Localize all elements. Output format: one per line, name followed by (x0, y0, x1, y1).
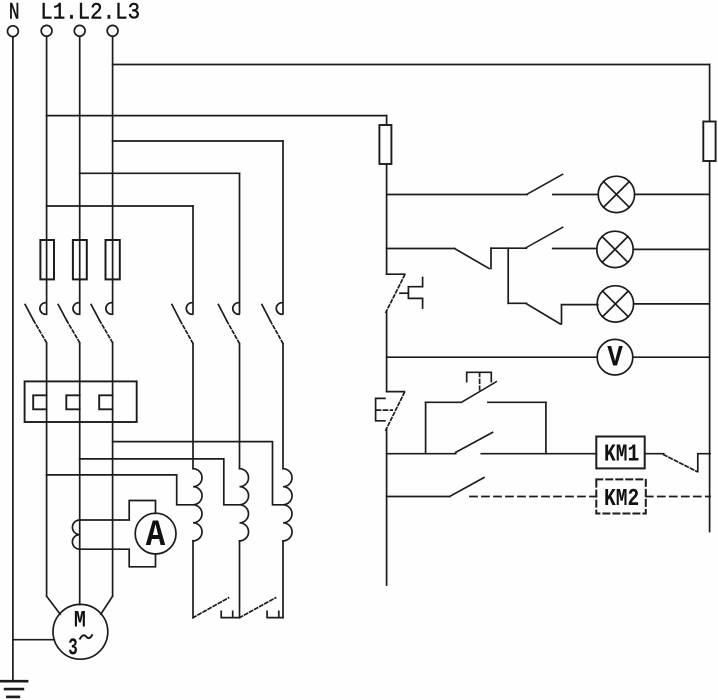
wire coil 3 bottom (282, 541, 284, 618)
contactor KM pole 2 (218, 303, 239, 344)
lamp HL2 (597, 231, 633, 267)
svg-text:3: 3 (68, 636, 78, 663)
wire selector vertical (507, 248, 509, 303)
lamp HL1 (598, 176, 634, 212)
lamp HL3 (597, 286, 633, 322)
autotransformer coil 1 (193, 469, 202, 541)
star contact blade 2 (240, 598, 276, 618)
motor tilde mark (80, 635, 92, 638)
wire L3 branch to x283 (113, 140, 283, 142)
lamp row 1 wire right (635, 193, 710, 195)
wire N vertical (12, 37, 14, 681)
wire tap L1 to coil 1 (47, 475, 193, 505)
stop button SB1 NC contact (386, 274, 423, 312)
current transformer on L2 (72, 520, 79, 549)
right rail segment 2 (709, 161, 711, 532)
wire motor lead 3 (101, 596, 113, 614)
wire ammeter top loop (80, 501, 156, 521)
lamp row 2 wire left (387, 248, 455, 250)
KM2 aux contact blade (450, 478, 484, 497)
wire branch vertical x239 upper (239, 173, 241, 313)
voltmeter row wire right (633, 356, 710, 358)
switch SA selector diagonal lower (526, 304, 560, 324)
wire L3 vertical upper (112, 36, 114, 314)
lamp row 3 wire left (508, 302, 526, 304)
svg-text:A: A (146, 515, 166, 557)
wire branch vertical x283 upper (282, 141, 284, 313)
left rail segment 2 (386, 164, 388, 274)
svg-text:M: M (74, 608, 86, 634)
svg-text:N: N (9, 0, 20, 25)
KM1 row wire mid (481, 453, 596, 455)
wire branch vertical x239 mid (239, 344, 241, 469)
wire branch vertical x193 upper (192, 206, 194, 313)
lamp row 3 wire right (634, 303, 710, 305)
left rail segment 1 (386, 116, 388, 125)
contactor KM pole 1 (172, 303, 193, 344)
wire branch vertical x193 mid (192, 344, 194, 469)
terminal labels N L1. L2. L3 (9, 0, 140, 25)
autotransformer coil 2 (240, 469, 249, 541)
breaker QF pole 1 (25, 303, 46, 343)
wire coil 1 bottom (192, 541, 194, 618)
star contact fixed 2 (267, 611, 283, 617)
wire L1 to control fuse (47, 115, 387, 117)
terminal L3 (107, 25, 118, 36)
left rail segment 3 (386, 312, 388, 391)
star contact blade 1 (193, 598, 229, 618)
KM2 interlock NC contact (664, 454, 710, 472)
wire L2 vertical upper (79, 36, 81, 314)
ground (1, 681, 27, 697)
svg-text:L1.L2.L3: L1.L2.L3 (40, 0, 140, 25)
lamp row 2 wire mid (553, 248, 597, 250)
wire branch vertical x283 mid (282, 344, 284, 469)
KM1 row wire after coil (645, 453, 664, 455)
wire selector common (491, 247, 526, 249)
thermal overload relay FR box (25, 381, 137, 422)
wire L1 vertical upper (46, 36, 48, 314)
FR heater phase 2 (66, 395, 79, 409)
wire ammeter bottom loop (80, 549, 156, 567)
contactor KM pole 3 (262, 303, 283, 344)
lamp row 1 wire mid (553, 194, 598, 196)
control fuse FU5 (703, 122, 715, 162)
motor M 3~ (53, 604, 108, 659)
switch SA contact 1 blade (527, 174, 563, 194)
wire tap L3 to coil 3 (113, 442, 283, 505)
wire motor lead 1 (47, 596, 61, 614)
wire tap L2 to coil 2 (80, 459, 240, 505)
contactor coil KM1 (596, 437, 644, 469)
FR heater phase 3 (99, 395, 112, 409)
KM1 aux contact blade (456, 432, 493, 452)
svg-text:V: V (607, 342, 623, 376)
wire L3 vertical lower (112, 343, 114, 597)
switch SA selector diagonal upper (455, 249, 490, 269)
terminal L1 (41, 25, 52, 36)
right rail segment 1 (709, 65, 711, 122)
switch SA jog up row3 (561, 305, 563, 324)
wire L2 vertical lower (79, 343, 81, 605)
KM1 row wire left (387, 453, 456, 455)
fuse FU3 (106, 240, 120, 279)
terminal L2 (74, 25, 85, 36)
terminal N (7, 26, 18, 37)
wire N to motor (13, 639, 54, 641)
KM2 row dashed wire (470, 496, 596, 498)
svg-text:KM1: KM1 (604, 442, 639, 469)
fuse FU2 (73, 240, 87, 279)
KM2 row dashed wire right (646, 496, 710, 498)
breaker QF pole 3 (91, 303, 113, 343)
switch SA jog up (490, 248, 492, 268)
wire L1 vertical lower (46, 343, 48, 597)
svg-text:KM2: KM2 (604, 486, 639, 513)
left rail segment 4 (386, 430, 388, 585)
KM2 row wire left (387, 496, 450, 498)
stop button SB2 NC contact (376, 392, 405, 431)
lamp row 3 wire mid (562, 304, 598, 306)
wire L1 branch to x193 (47, 205, 193, 207)
switch SA contact 2 blade (526, 227, 562, 247)
fuse FU1 (40, 240, 54, 279)
lamp row 2 wire right (633, 248, 709, 250)
contactor coil KM2 dashed (596, 479, 646, 513)
wire top feed L3 to right rail (113, 64, 710, 66)
control fuse FU4 (379, 125, 391, 164)
star contact fixed 1 (221, 611, 239, 617)
voltmeter PV (597, 339, 633, 375)
voltmeter row wire left (387, 356, 598, 358)
autotransformer coil 3 (283, 469, 292, 541)
wire L2 branch to x239 (80, 172, 240, 174)
wire coil 2 bottom (239, 541, 241, 618)
ammeter A (135, 513, 176, 554)
start button SB3 branch (426, 372, 546, 453)
lamp row 1 wire left (387, 194, 527, 196)
breaker QF pole 2 (58, 303, 79, 343)
FR heater phase 1 (33, 395, 46, 409)
